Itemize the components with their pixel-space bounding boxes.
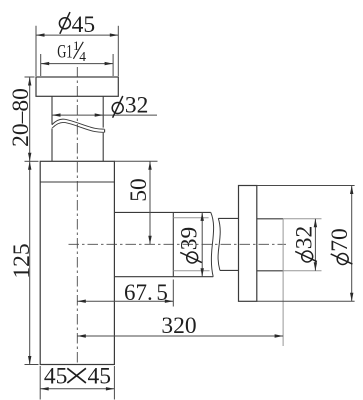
label 320 bbox=[161, 313, 196, 339]
horizontal pipe after break bbox=[218, 218, 239, 270]
label dia70 bbox=[327, 228, 353, 264]
dim 125 bbox=[25, 161, 39, 364]
dim 320 bbox=[77, 335, 283, 337]
flange extension lines for dia70 bbox=[257, 186, 355, 302]
svg-text:70: 70 bbox=[327, 228, 353, 252]
svg-text:45: 45 bbox=[44, 363, 68, 389]
wall flange outline bbox=[239, 186, 257, 302]
label 125 bbox=[9, 243, 35, 278]
dim 50 bbox=[114, 161, 157, 244]
svg-text:32: 32 bbox=[125, 92, 148, 118]
label dia32 right bbox=[292, 226, 318, 262]
wall pipe outline bbox=[257, 219, 283, 271]
trap body outline (45x45) bbox=[40, 161, 114, 364]
label 67.5 bbox=[124, 280, 168, 305]
pipe silhouette through nut (gray) bbox=[173, 218, 209, 271]
svg-text:32: 32 bbox=[292, 226, 318, 250]
label dia45 bbox=[59, 12, 95, 38]
dim dia32 right bbox=[314, 219, 316, 271]
svg-text:5: 5 bbox=[156, 280, 168, 305]
flange (top cap) outline bbox=[36, 77, 118, 96]
svg-text:320: 320 bbox=[161, 313, 196, 339]
svg-text:45: 45 bbox=[72, 12, 96, 38]
outlet stub and nut outline bbox=[114, 212, 213, 276]
body joint line bbox=[40, 181, 114, 183]
svg-text:67.: 67. bbox=[124, 280, 153, 305]
dim 20-80 bbox=[25, 77, 39, 161]
dim dia39 bbox=[201, 212, 203, 276]
inlet tube outline with break bbox=[52, 96, 105, 161]
horizontal pipe break squiggle bbox=[211, 212, 220, 276]
label 20-80 bbox=[8, 88, 34, 147]
svg-text:4: 4 bbox=[79, 49, 86, 64]
dim dia32 top bbox=[52, 114, 157, 116]
dim 67.5 bbox=[77, 280, 173, 307]
dim dia45 bbox=[36, 26, 118, 76]
dim G1-1/4 bbox=[41, 54, 113, 76]
svg-text:45: 45 bbox=[88, 363, 112, 389]
inlet tube break squiggle bbox=[52, 119, 105, 132]
centerline horizontal (pipe axis) bbox=[69, 243, 287, 245]
label 50 bbox=[126, 178, 152, 202]
svg-text:39: 39 bbox=[177, 227, 203, 251]
label dia32 top bbox=[112, 92, 148, 118]
label 45x45 bbox=[44, 363, 111, 389]
wall pipe extension lines (gray) bbox=[283, 219, 321, 346]
svg-text:50: 50 bbox=[126, 178, 152, 202]
label dia39 bbox=[177, 227, 203, 263]
svg-text:G1: G1 bbox=[57, 43, 72, 63]
dim dia70 bbox=[351, 186, 353, 302]
dim 45x45 bbox=[40, 366, 114, 400]
svg-text:125: 125 bbox=[9, 243, 35, 278]
svg-text:20–80: 20–80 bbox=[8, 88, 34, 147]
centerline vertical (body axis) bbox=[76, 67, 78, 365]
label G1-1/4 bbox=[57, 38, 86, 64]
